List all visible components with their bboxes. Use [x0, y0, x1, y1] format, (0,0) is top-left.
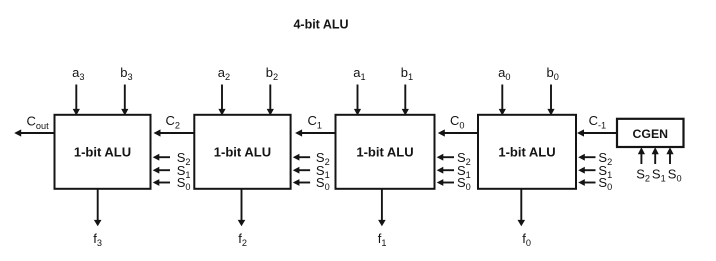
svg-text:1-bit ALU: 1-bit ALU: [356, 144, 413, 159]
wire S2 into bit3: [153, 154, 170, 161]
svg-text:b3: b3: [120, 65, 132, 82]
svg-text:f1: f1: [378, 231, 387, 248]
1-bit ALU block bit 3: [55, 115, 151, 189]
wire f0 output: [518, 189, 526, 226]
wire S2 into bit0: [578, 154, 595, 161]
wire b3 input: [121, 85, 128, 116]
wire b2 input: [267, 85, 274, 116]
svg-text:S0: S0: [668, 167, 682, 184]
svg-text:C1: C1: [308, 113, 323, 130]
svg-text:b0: b0: [547, 65, 559, 82]
wire S1 into bit3: [153, 167, 170, 174]
wire S2 into bit1: [437, 154, 454, 161]
svg-text:1-bit ALU: 1-bit ALU: [74, 144, 131, 159]
wire b1 input: [402, 85, 409, 116]
wire S0 into bit0: [578, 179, 595, 186]
CGEN block: [617, 119, 684, 147]
wire S1 into bit1: [437, 167, 454, 174]
svg-text:1-bit ALU: 1-bit ALU: [498, 144, 555, 159]
wire S0 into CGEN: [666, 147, 673, 164]
wire S2 into bit2: [293, 154, 310, 161]
wire a2 input: [218, 85, 225, 116]
svg-text:f3: f3: [93, 231, 102, 248]
wire f1 output: [378, 189, 386, 226]
wire S0 into bit1: [437, 179, 454, 186]
wire a3 input: [73, 85, 80, 116]
svg-text:C0: C0: [450, 113, 465, 130]
svg-text:f2: f2: [238, 231, 247, 248]
1-bit ALU block bit 0: [478, 115, 576, 189]
wire S1 into CGEN: [652, 147, 659, 164]
svg-text:C2: C2: [166, 113, 181, 130]
svg-text:a2: a2: [218, 65, 230, 82]
svg-text:S2: S2: [636, 167, 650, 184]
wire S1 into bit2: [293, 167, 310, 174]
svg-text:a1: a1: [353, 65, 365, 82]
svg-text:f0: f0: [522, 231, 531, 248]
svg-text:Cout: Cout: [27, 114, 50, 131]
wire S2 into CGEN: [638, 147, 645, 164]
svg-text:S1: S1: [652, 167, 666, 184]
svg-text:1-bit ALU: 1-bit ALU: [214, 144, 271, 159]
wire Cout output: [14, 129, 54, 136]
wire S0 into bit2: [293, 179, 310, 186]
wire S0 into bit3: [153, 179, 170, 186]
wire a0 input: [499, 85, 506, 116]
svg-text:b1: b1: [401, 65, 413, 82]
1-bit ALU block bit 2: [194, 115, 290, 189]
svg-text:b2: b2: [266, 65, 278, 82]
1-bit ALU block bit 1: [336, 115, 435, 189]
svg-text:a3: a3: [72, 65, 84, 82]
wire S1 into bit0: [578, 167, 595, 174]
wire C2 carry: [154, 129, 195, 136]
svg-text:CGEN: CGEN: [633, 127, 669, 141]
wire C-1 carry: [577, 129, 617, 136]
wire f3 output: [94, 189, 102, 226]
svg-text:C-1: C-1: [589, 113, 607, 130]
wire C1 carry: [295, 129, 335, 136]
wire a1 input: [354, 85, 361, 116]
svg-text:4-bit ALU: 4-bit ALU: [293, 18, 348, 32]
wire f2 output: [238, 189, 246, 226]
svg-text:a0: a0: [498, 65, 510, 82]
wire C0 carry: [438, 129, 478, 136]
wire b0 input: [547, 85, 554, 116]
